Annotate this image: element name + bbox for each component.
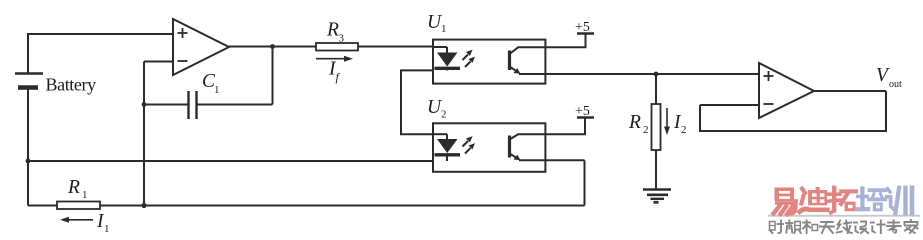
optocoupler U2 body <box>433 123 545 172</box>
+5 supply terminal (upper) <box>575 20 594 35</box>
wire: middle rail from left vertical to U2 LED cathode pin <box>28 160 433 162</box>
wire: U2 collector to lower +5 <box>518 118 586 135</box>
wire: U4 feedback loop <box>700 91 886 131</box>
svg-text:1: 1 <box>441 23 447 35</box>
wm small char xian <box>837 221 852 234</box>
U1 LED <box>433 47 460 70</box>
wire: U4 output to Vout <box>814 90 886 92</box>
junction dot: C1 rail meets inverting vertical <box>142 102 147 107</box>
wm small char she <box>770 221 784 234</box>
wire: C1 feedback rail right part <box>197 104 273 106</box>
svg-text:R: R <box>628 112 641 133</box>
optocoupler U1 body <box>433 40 545 84</box>
wm underline <box>768 215 920 217</box>
battery symbol <box>15 74 43 88</box>
U1 light emission arrows <box>463 50 476 67</box>
resistor R1 <box>57 202 100 210</box>
wm char tuo (red) <box>829 188 856 213</box>
svg-text:1: 1 <box>214 84 220 96</box>
wire: U1 LED cathode to U2 LED anode link <box>401 70 433 134</box>
svg-text:1: 1 <box>82 189 88 201</box>
svg-text:2: 2 <box>441 109 447 121</box>
U2 LED <box>433 134 460 161</box>
svg-text:3: 3 <box>339 33 345 45</box>
svg-text:Battery: Battery <box>46 75 97 95</box>
U2 light emission arrows <box>463 136 476 153</box>
wire: R2 bottom to ground <box>655 150 657 189</box>
wm small char jia <box>904 220 917 233</box>
junction dot: inverting vertical meets bottom rail <box>141 203 146 208</box>
wire: U4 inverting input stub <box>700 104 759 106</box>
wire: battery positive to op-amp U3 non-inverting input (top rail) <box>28 34 173 73</box>
svg-text:out: out <box>889 79 902 90</box>
wm char di (red) <box>800 187 828 212</box>
U2 phototransistor <box>510 134 521 160</box>
svg-text:V: V <box>876 65 890 86</box>
junction dot: U3 output node <box>270 44 275 49</box>
wm char yi (red) <box>774 188 797 215</box>
U1 phototransistor <box>510 47 521 73</box>
current arrow I1 <box>60 217 93 223</box>
resistor R2 <box>652 104 661 150</box>
wire: inverting input vertical of U3 down to bottom rail <box>143 62 145 206</box>
op-amp U4 (output buffer) <box>759 63 814 118</box>
wire: R3 to U1 LED anode pin <box>358 46 433 48</box>
wm small char tian <box>820 222 834 233</box>
svg-text:R: R <box>67 177 80 198</box>
+5 supply terminal (lower) <box>575 104 594 119</box>
wm char xun (blue) <box>887 188 912 213</box>
svg-text:R: R <box>326 20 339 41</box>
wire: U1 phototransistor collector to +5 <box>518 34 586 48</box>
wire: C1 feedback rail left part <box>144 104 188 106</box>
wire: U3 output to R3 <box>229 46 316 48</box>
svg-text:+5: +5 <box>575 104 590 119</box>
wire: U2 emitter to right riser <box>519 159 585 161</box>
watermark tagline small gray characters <box>770 220 918 233</box>
wm small char he <box>803 221 818 234</box>
op-amp U3 (input amplifier) <box>173 19 229 75</box>
wire: R2 top branch from node A <box>655 74 657 104</box>
wm char pei (blue) <box>857 189 885 212</box>
junction dot: middle rail meets left vertical <box>26 159 31 164</box>
svg-text:1: 1 <box>104 223 110 235</box>
current arrow I2 <box>664 108 670 135</box>
resistor R3 <box>316 43 358 51</box>
svg-text:+5: +5 <box>575 20 590 35</box>
ground <box>643 190 671 203</box>
wire: bottom rail from battery to right vertical riser <box>28 205 585 207</box>
junction dot: node A (emitter line meets R2) <box>654 72 659 77</box>
svg-text:2: 2 <box>681 124 687 136</box>
current arrow If <box>316 56 353 62</box>
wm small char ji <box>871 221 885 234</box>
wm small char pin <box>786 221 801 234</box>
wire: feedback vertical from U3 output node down to C1 rail <box>272 47 274 105</box>
wire: right riser from bottom rail up to U2 emitter line <box>584 160 586 205</box>
wm small char she2 <box>854 222 868 234</box>
wire: inverting input stub of U3 <box>144 61 173 63</box>
wire: battery negative down to bottom rail <box>27 88 29 206</box>
svg-text:f: f <box>336 70 341 84</box>
wm small char zhuan <box>887 221 901 234</box>
wire: U1 emitter to op-amp U4 non-inverting input <box>519 73 759 75</box>
svg-text:2: 2 <box>643 124 649 136</box>
capacitor C1 <box>189 91 197 119</box>
